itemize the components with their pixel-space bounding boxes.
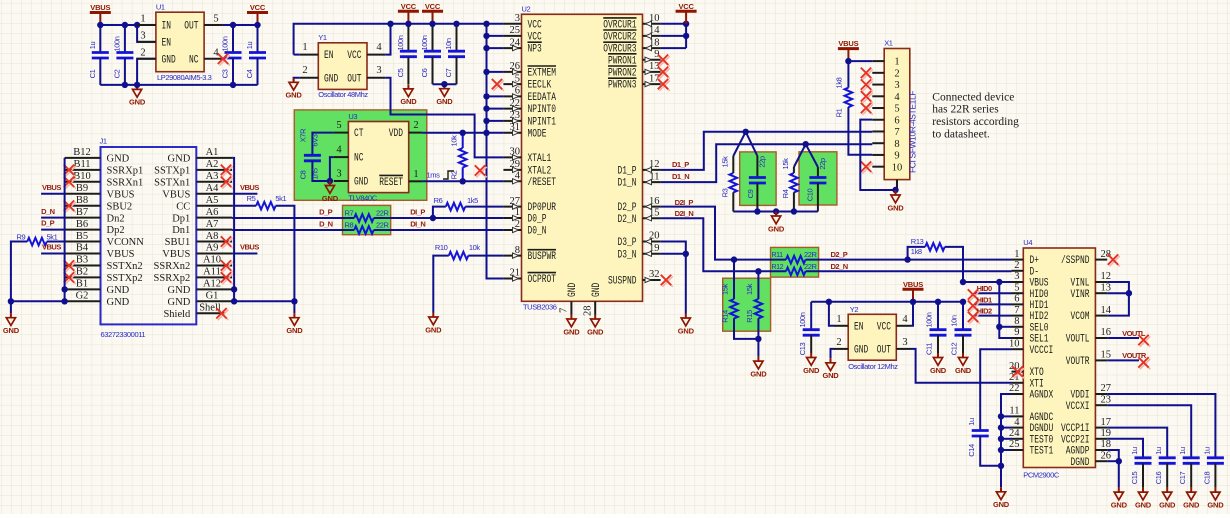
svg-text:D2_P: D2_P [831,250,848,259]
svg-text:24: 24 [1009,428,1020,439]
wire U4 VDDI to C18 [1107,394,1215,458]
svg-text:A12: A12 [203,279,221,290]
capacitor C7 10n [444,24,465,84]
svg-text:17: 17 [1101,417,1112,428]
wire VBUS rail (Y2 section) [811,301,963,303]
svg-text:VCOM: VCOM [1071,311,1090,323]
svg-text:5k1: 5k1 [275,194,286,203]
svg-text:3: 3 [336,169,341,180]
svg-text:A8: A8 [206,231,219,242]
svg-text:EN: EN [162,37,172,49]
svg-text:B8: B8 [76,195,88,206]
svg-text:Oscillator 12Mhz: Oscillator 12Mhz [848,362,898,371]
svg-text:C9: C9 [746,189,755,198]
svg-text:GND: GND [286,91,303,100]
wire U2 NPINT0 pin22 [487,108,504,110]
junction dot R14 top [731,256,737,262]
svg-text:A11: A11 [203,267,221,278]
svg-text:VCC: VCC [401,2,417,11]
svg-text:GND: GND [930,366,947,375]
capacitor C1 1u [88,25,109,85]
svg-text:EXTMEM: EXTMEM [528,68,557,80]
svg-text:B1: B1 [76,279,88,290]
svg-text:J1: J1 [100,137,107,146]
svg-text:AGNDP: AGNDP [1066,446,1090,458]
svg-text:5: 5 [894,104,899,115]
wire U3 RESET / /RESET net [422,180,503,182]
svg-text:VBUS: VBUS [240,243,259,252]
ground symbol (U1 section) [129,85,146,107]
svg-text:BUSPWR: BUSPWR [528,251,557,263]
wire U1 OUT rail to VCC [223,24,258,26]
svg-text:C18: C18 [1202,471,1211,484]
svg-text:15k: 15k [720,156,729,168]
svg-text:HID2: HID2 [1030,311,1049,323]
svg-text:C2: C2 [112,69,121,78]
svg-text:OUT: OUT [347,73,362,85]
capacitor C16 1u [1154,447,1176,488]
junction dots J1 right GND bus [231,286,298,304]
power symbol VBUS (X1) [838,39,859,61]
svg-text:25: 25 [1009,439,1020,450]
svg-text:1n5: 1n5 [311,168,320,180]
svg-text:GND: GND [955,366,972,375]
svg-text:GND: GND [854,345,869,357]
ground symbol (J1 right) [286,313,303,335]
capacitor C9 22p [746,156,767,212]
svg-text:GND: GND [993,500,1010,509]
no-connect X on U4 /SSPND pin 28 [1108,254,1120,266]
svg-text:C11: C11 [925,343,934,355]
ground symbol (U4 AGNDP) [1111,488,1128,510]
svg-text:/RESET: /RESET [528,177,557,189]
oscillator Y1 48Mhz [300,33,385,99]
wire D_N line J1 A7 to R8 [232,229,354,231]
svg-text:1u: 1u [1178,447,1187,455]
svg-text:R11: R11 [772,252,784,259]
power symbol VCC (above C5) [398,2,419,24]
svg-text:Oscillator 48Mhz: Oscillator 48Mhz [318,90,368,99]
svg-text:C4: C4 [245,69,254,78]
junction dots OVRCUR tie [683,21,689,40]
wire D1_N from U2 pin11 to X1 pin8 [661,144,873,182]
svg-text:GND: GND [3,326,20,335]
ground symbol (D3 pair) [678,314,695,336]
junction dots U1 rails [97,22,261,88]
junction dot R14/R15 bottom [755,336,761,342]
svg-text:VINL: VINL [1071,278,1090,290]
ground symbol (C6/C7) [436,84,453,106]
ground symbol (X1) [887,191,904,213]
svg-text:U4: U4 [1023,238,1032,247]
svg-text:1k5: 1k5 [467,196,478,205]
svg-text:10: 10 [1009,338,1020,349]
svg-text:R14: R14 [721,310,730,323]
resistor R14 15k [721,260,759,339]
svg-text:7: 7 [559,308,570,313]
no-connect X on U2 PWRON3 pin 17 [658,79,670,91]
svg-text:VBUS: VBUS [90,3,110,12]
svg-text:D2_N: D2_N [618,214,637,226]
ground symbol (C15) [1135,488,1152,510]
svg-text:10n: 10n [444,38,453,50]
junction dot D1_P filter tap [743,129,749,135]
svg-text:XTAL2: XTAL2 [528,166,552,178]
wire diagonal D1_N to C10 [806,144,818,167]
svg-text:C14: C14 [967,444,976,457]
svg-text:GND: GND [129,98,146,107]
svg-text:VINR: VINR [1071,289,1090,301]
svg-text:GND: GND [1135,500,1152,509]
svg-text:27: 27 [1101,383,1112,394]
no-connect X marks J1 left side [64,165,76,285]
wire J1 right GND bus [232,158,294,301]
svg-text:23: 23 [1101,394,1112,405]
wire Y2 GND pin down [831,349,835,358]
wire Y2 EN up to VBUS rail [829,302,834,326]
svg-text:Dp2: Dp2 [107,225,125,236]
svg-text:A4: A4 [206,183,220,194]
svg-text:15k: 15k [745,283,754,295]
svg-text:SSRXp2: SSRXp2 [154,273,191,284]
svg-text:1: 1 [413,169,418,180]
wire diagonal D1_P to R3 [733,132,745,156]
wire Y1 GND pin down [294,78,300,81]
svg-text:VBUS: VBUS [240,183,259,192]
wire J1 left GND bus [11,158,65,313]
svg-text:VOUTL: VOUTL [1122,329,1146,338]
svg-text:X1: X1 [884,39,893,48]
svg-text:R13: R13 [911,237,924,246]
svg-text:4: 4 [376,42,382,53]
junction dots J1 left GND bus [8,286,68,304]
svg-text:GND: GND [567,282,579,297]
svg-text:MODE: MODE [528,128,547,140]
svg-text:VBUS: VBUS [162,189,190,200]
svg-text:D3_N: D3_N [618,249,637,261]
svg-text:VOUTR: VOUTR [1122,351,1147,360]
IC U2 TUSB2036 [503,5,660,317]
svg-text:R15: R15 [745,310,754,323]
svg-text:D_N: D_N [41,207,55,216]
wire DI_N line R8 to U2 D0_N [374,229,504,231]
resistor R6 1k5 (DP0PUR pullup) [433,196,504,218]
ground symbol (C13) [803,353,820,375]
wire Y1 VCC pin up to rail [385,24,390,55]
svg-text:1k8: 1k8 [911,247,922,256]
net label VOUTR with no-connect [1107,351,1150,369]
green highlight box around C10 [799,152,837,205]
svg-text:100n: 100n [112,36,121,51]
svg-text:Connected device: Connected device [932,91,1014,103]
svg-text:VDDI: VDDI [1071,390,1090,402]
svg-text:28: 28 [583,306,594,317]
svg-text:GND: GND [354,177,369,189]
svg-text:14: 14 [1101,305,1112,316]
svg-text:SSTXn2: SSTXn2 [107,261,143,272]
svg-text:SSRXn1: SSRXn1 [107,177,144,188]
capacitor C2 100n [112,25,133,85]
svg-text:R7: R7 [345,209,354,218]
svg-text:1: 1 [894,57,899,68]
svg-text:GND: GND [1183,500,1200,509]
svg-text:NC: NC [189,54,199,66]
svg-text:VOUTR: VOUTR [1066,356,1090,368]
svg-text:R10: R10 [435,243,448,252]
svg-text:GND: GND [425,325,442,334]
resistor R5 5k1 (CC pulldown) [232,194,294,301]
svg-text:B6: B6 [76,219,88,230]
svg-text:AGNDC: AGNDC [1030,412,1054,424]
ground symbol (U3/C8) [322,181,339,203]
svg-text:EN: EN [324,50,334,62]
svg-text:3: 3 [894,80,899,91]
svg-text:VBUS: VBUS [162,249,190,260]
net label VBUS on J1 A4 [232,183,259,194]
svg-text:/SSPND: /SSPND [1061,255,1090,267]
svg-text:SBU2: SBU2 [107,201,133,212]
svg-text:U2: U2 [522,5,531,14]
svg-text:GND: GND [1207,500,1224,509]
svg-text:CC: CC [176,201,190,212]
net label D_N on J1 B7 [41,207,65,218]
resistor R3 15k [720,156,737,212]
svg-text:9: 9 [1014,327,1019,338]
net label HID0 with no-connect [968,284,1012,301]
note text connected device [932,91,1019,140]
svg-text:GND: GND [822,371,839,380]
green highlight box around U3 [294,110,427,200]
ground symbol (R10) [425,313,442,335]
ground symbol (C12) [955,353,972,375]
svg-text:GND: GND [168,297,191,308]
ground symbol (C17) [1183,488,1200,510]
junction dots RC filter rail [754,208,797,214]
svg-text:B7: B7 [76,207,88,218]
resistor R11 22R [772,250,818,263]
svg-text:100n: 100n [420,35,429,50]
wire U4 VBUS to SEL0 SEL1 [999,282,1011,338]
no-connect X on U2 XTAL2 pin 29 [475,165,487,177]
svg-text:GND: GND [1111,500,1128,509]
ground symbol (Y2) [822,358,839,380]
svg-text:100n: 100n [221,36,230,51]
svg-text:C15: C15 [1130,471,1139,484]
svg-text:1u: 1u [245,42,254,50]
svg-text:4: 4 [894,92,900,103]
svg-text:Shell: Shell [199,303,221,314]
svg-text:Dn1: Dn1 [172,225,190,236]
svg-text:DI_N: DI_N [410,219,425,228]
svg-text:GND: GND [324,73,339,85]
no-connect X on U2 SUSPND pin 32 [661,275,673,287]
svg-text:XTI: XTI [1030,378,1044,390]
svg-text:100n: 100n [925,312,934,327]
wire X1 pin1 to VBUS [848,60,872,62]
svg-text:D2I_N: D2I_N [675,209,694,218]
regulator U1 LP29080AIM5-3.3 [137,3,223,82]
svg-text:632723300011: 632723300011 [101,330,146,339]
svg-text:A9: A9 [206,243,219,254]
ground symbol (C5) [400,84,417,106]
wire VBUS riser to U4 pin3 [963,281,1012,283]
svg-text:1u: 1u [1202,447,1211,455]
svg-text:D-: D- [1030,266,1040,278]
power symbol VBUS (Y2 section) [903,280,924,302]
svg-text:GND: GND [400,97,417,106]
junction dots VCC rail [387,21,489,88]
svg-text:VCC: VCC [877,321,892,333]
svg-text:22R: 22R [804,262,818,271]
svg-text:XTAL1: XTAL1 [528,153,552,165]
svg-text:1u: 1u [1130,447,1139,455]
svg-text:D_N: D_N [319,219,333,228]
ground symbol (U2 pin 28) [587,315,604,337]
junction dot R6 to D0_P [430,215,436,221]
svg-text:IN: IN [162,21,172,33]
capacitor C17 1u [1178,447,1200,488]
svg-text:2: 2 [836,337,841,348]
no-connect X on U2 PWRON2 pin 13 [658,67,670,79]
capacitor C12 10n [950,302,972,355]
resistor R4 15k [781,158,798,212]
svg-text:100n: 100n [798,312,807,327]
svg-text:Dp1: Dp1 [172,213,190,224]
svg-text:D1_P: D1_P [672,160,689,169]
svg-text:D+: D+ [1030,255,1040,267]
svg-text:25: 25 [510,25,521,36]
net label VBUS on J1 B9 [41,183,65,194]
svg-text:VDD: VDD [389,128,404,140]
junction dot D1_N filter tap [803,141,809,147]
svg-text:CT: CT [354,128,364,140]
svg-text:A6: A6 [206,207,219,218]
junction dots VBUS rail [826,299,967,305]
wire U4 AGNDX ground bus [1001,394,1012,487]
J1 right pins A1-G1 and Shell [154,147,233,320]
svg-text:6: 6 [894,115,899,126]
wire U3 VDD / MODE net [422,132,503,134]
svg-text:26: 26 [1101,450,1112,461]
svg-text:C6: C6 [420,68,429,77]
svg-text:SSTXn1: SSTXn1 [154,177,190,188]
junction dot AGNDP/DGND [1116,458,1122,464]
svg-text:22: 22 [1009,383,1020,394]
svg-text:1: 1 [140,14,145,25]
no-connect X marks X1 pins 2-5 and 10 [861,68,873,174]
wire U2 EEDATA pin6 [487,95,504,97]
svg-text:1u: 1u [1154,447,1163,455]
svg-text:GND: GND [887,203,904,212]
capacitor C3 100n [221,25,242,85]
svg-text:A3: A3 [206,171,219,182]
power symbol VCC (above C6) [422,2,443,24]
capacitor C11 100n [925,302,947,355]
wire U2 NPINT1 pin23 [487,120,504,122]
svg-text:32: 32 [649,269,660,280]
svg-text:Shield: Shield [163,309,191,320]
svg-text:22p: 22p [757,156,766,168]
svg-text:GND: GND [436,97,453,106]
wire J1 right GND stem [293,301,295,313]
capacitor C10 22p [805,158,827,211]
svg-text:NC: NC [354,153,364,165]
svg-text:R3: R3 [720,188,729,197]
svg-text:GND: GND [768,224,785,233]
svg-text:U1: U1 [156,3,165,12]
svg-text:GND: GND [322,194,339,203]
ground symbol (R14/R15) [750,357,767,379]
connector X1 FCI SFW10R-4STE1LF [872,39,917,191]
green highlight box around C9 [740,152,776,206]
svg-text:D0_N: D0_N [528,226,547,238]
svg-text:SUSPND: SUSPND [608,276,637,288]
wire Y2 OUT to U4 XTI [911,349,1012,383]
svg-text:15k: 15k [781,158,790,170]
svg-text:A1: A1 [206,147,219,158]
wire U4 VCCXI to C17 [1107,405,1191,458]
svg-text:R2: R2 [450,170,459,179]
wire U1 EN to input rail [137,25,156,42]
svg-text:A2: A2 [206,159,219,170]
svg-text:9: 9 [894,151,899,162]
wire U2 NP3 pin24 stub link [487,47,504,49]
wire D1_P from U2 pin12 to X1 pin7 [661,132,873,170]
svg-text:GND: GND [1159,500,1176,509]
svg-text:D0_P: D0_P [528,214,547,226]
svg-text:5k1: 5k1 [47,233,58,242]
svg-text:D_P: D_P [41,219,55,228]
svg-text:6: 6 [1014,294,1019,305]
svg-text:VCC: VCC [425,2,441,11]
svg-text:10k: 10k [450,135,459,147]
svg-text:1ms: 1ms [427,171,441,180]
wire diagonal D1_P to C9 [746,132,758,156]
svg-text:NPINT0: NPINT0 [528,104,557,116]
junction dot D3_N [683,251,689,257]
net label VOUTL with no-connect [1107,329,1150,347]
svg-text:D_P: D_P [319,207,333,216]
svg-text:VOUTL: VOUTL [1066,334,1090,346]
svg-text:3: 3 [140,30,145,41]
no-connect X on U4 XTO pin 20 [1012,366,1024,378]
svg-text:A5: A5 [206,195,219,206]
wire U4 TEST0 link [1001,438,1012,440]
svg-text:B5: B5 [76,231,88,242]
junction dot R15 top [755,268,761,274]
svg-text:C13: C13 [798,342,807,355]
svg-text:GND: GND [678,326,695,335]
svg-text:5: 5 [213,14,218,25]
svg-text:SEL0: SEL0 [1030,322,1049,334]
svg-text:VBUS: VBUS [903,280,923,289]
svg-text:R4: R4 [781,189,790,198]
svg-text:G2: G2 [76,291,89,302]
wire U2 OVRCUR tie to VCC [661,24,687,48]
svg-text:1: 1 [1014,249,1019,260]
svg-text:10n: 10n [950,315,959,327]
capacitor C6 100n [420,24,441,84]
svg-text:DI_P: DI_P [410,207,425,216]
ground symbol (C16) [1159,488,1176,510]
resistor R1 1k8 (VBUS to X1 pin9) [834,61,872,155]
capacitor C4 1u [245,25,266,85]
svg-text:GND: GND [107,297,130,308]
resistor R13 1k8 (D+ pullup) [908,237,963,282]
svg-text:VCC: VCC [250,3,266,12]
svg-text:GND: GND [591,282,603,297]
svg-text:VCCXI: VCCXI [1066,401,1090,413]
